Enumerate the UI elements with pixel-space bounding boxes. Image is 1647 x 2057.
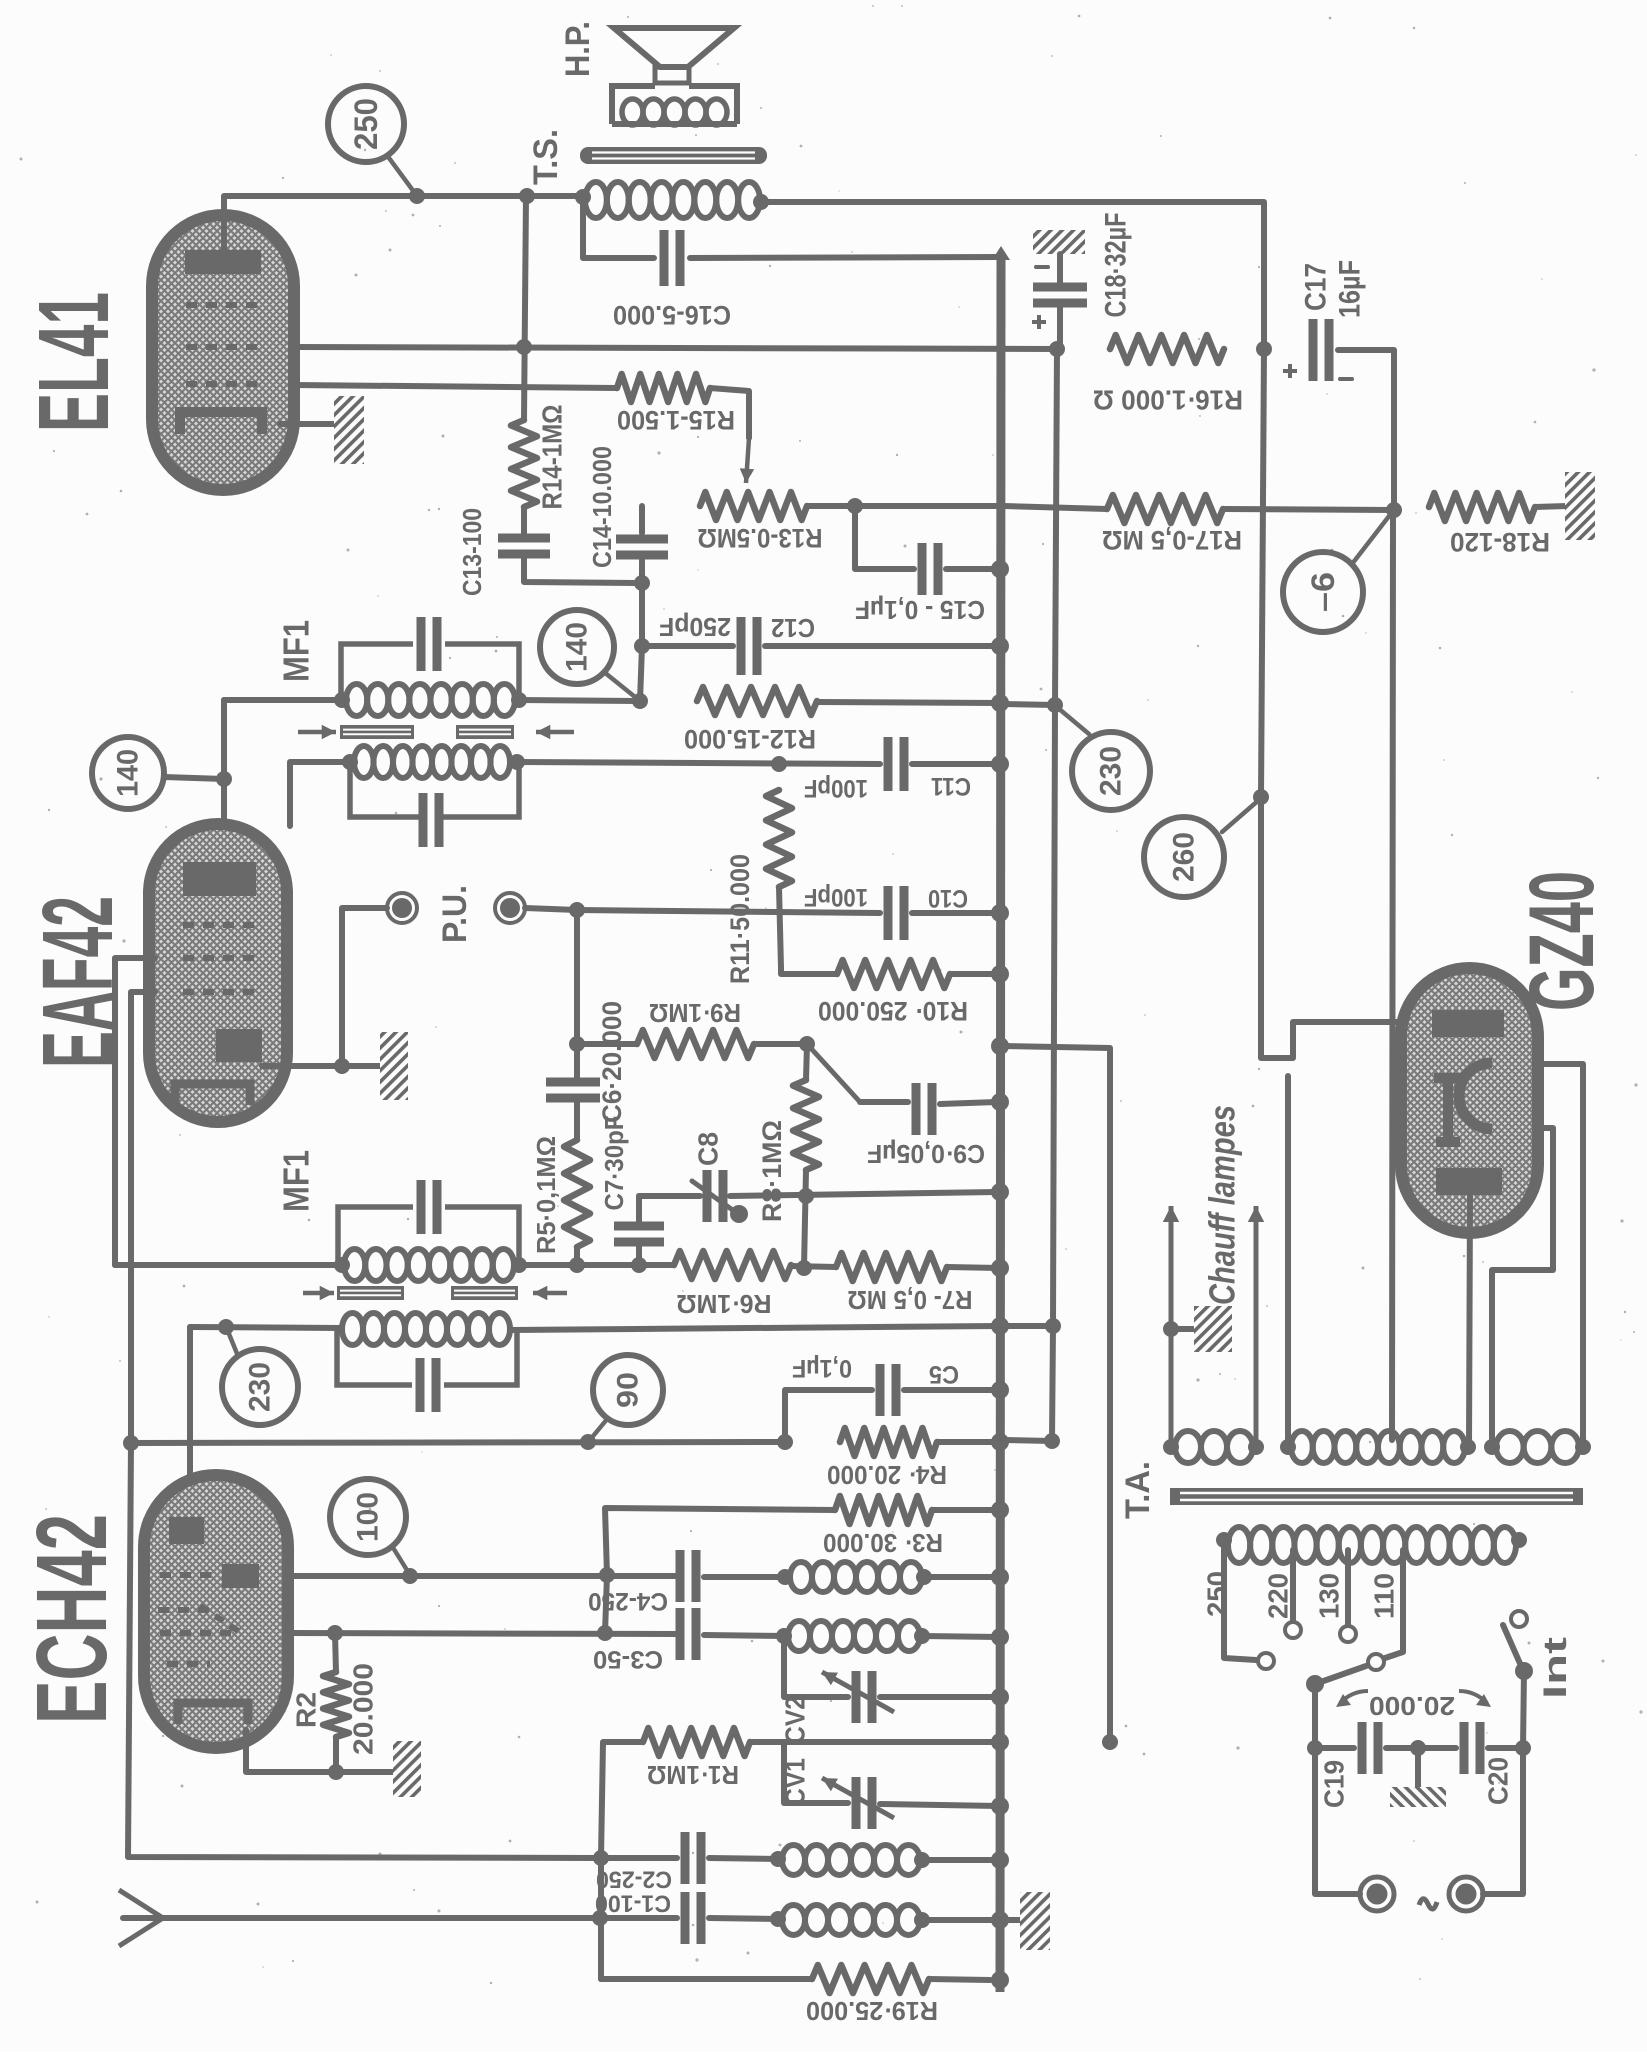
junction dot 140 node: [632, 693, 648, 709]
MF1-lower tuning arrow right: [533, 1291, 567, 1296]
svg-text:CV2: CV2: [780, 1696, 811, 1744]
dot primary right: [1511, 1532, 1527, 1548]
wire C16 to main rail: [690, 257, 998, 258]
wire Int to mains plug right: [1483, 1748, 1523, 1894]
wire R6 to R7: [791, 1266, 836, 1267]
resistor R11-50.000 vertical: [766, 790, 792, 887]
resistor R6-1M: [674, 1251, 791, 1279]
EL41 plate lead wire: [221, 215, 227, 252]
wire x131 bus down to C2 row: [128, 1443, 597, 1858]
wire P.U.2 to C10 row: [525, 908, 577, 910]
wire R11 bottom to R10: [779, 887, 837, 974]
svg-text:C2-250: C2-250: [596, 1866, 672, 1893]
junction dot x131/90 row: [123, 1435, 139, 1451]
wire T.A. feed from rail: [1001, 1046, 1110, 1742]
resistor R3-30.000: [835, 1496, 932, 1524]
wire 260 bus to GZ40 plate: [1261, 797, 1430, 1058]
dot HT winding left: [1484, 1439, 1500, 1455]
wire MF1-lower primary to rail: [510, 1326, 999, 1330]
svg-text:130: 130: [1314, 1573, 1345, 1619]
rail top end marker: [992, 246, 1010, 260]
svg-text:C11: C11: [931, 772, 971, 800]
wire primary right to C17 corner (x1264 drop): [761, 202, 1264, 349]
wire x577 column down: [574, 910, 580, 1078]
transformer MF1-upper secondary coil: [346, 684, 367, 716]
junction dot x1053 stub: [1045, 1318, 1061, 1334]
junction dot L1 left: [777, 1569, 793, 1585]
node 140 circle: [540, 610, 614, 684]
wire MF1 primary to EAF42 plate: [290, 762, 350, 826]
svg-text:R5·0,1MΩ: R5·0,1MΩ: [531, 1136, 561, 1254]
capacitor C18-32uF bars: [1033, 283, 1087, 292]
svg-text:–6: –6: [1305, 572, 1341, 612]
junction dot L2 right: [914, 1628, 930, 1644]
svg-text:16µF: 16µF: [1334, 260, 1367, 318]
wire 140 node to MF1 secondary: [224, 697, 342, 703]
junction dot L4 right: [914, 1912, 930, 1928]
wire C1 row cont: [709, 1918, 782, 1919]
svg-text:ECH42: ECH42: [16, 1514, 128, 1724]
wire R3 column: [605, 1575, 607, 1633]
dot 5V winding right: [1460, 1439, 1476, 1455]
dot HT winding right: [1575, 1439, 1591, 1455]
terminal P.U. 2: [495, 893, 525, 923]
resistor R12-15.000: [697, 687, 817, 715]
switch Int terminal: [1511, 1611, 1527, 1627]
wire 140 left to EAF42 grid node: [164, 777, 224, 779]
wire C14 bottom to node dot: [639, 560, 645, 583]
wire node down to C12 row: [639, 583, 645, 646]
ground C18: [1033, 230, 1085, 254]
wire -6 centre-tap bus: [1392, 510, 1393, 1440]
wire x601 column: [598, 1858, 604, 1979]
svg-text:R18-120: R18-120: [1450, 527, 1550, 557]
junction dot cathode/ground/PU: [334, 1058, 350, 1074]
wire ECH42 triode anode row (y1576): [288, 1573, 676, 1579]
svg-text:R14-1MΩ: R14-1MΩ: [537, 405, 568, 510]
wire GZ40 filament right lower: [1492, 1128, 1553, 1447]
speaker H.P. horn: [614, 28, 734, 67]
node dot top wire B: [519, 188, 535, 204]
wire R2 leads: [335, 1633, 336, 1672]
capacitor C13-100 bars: [498, 534, 550, 543]
svg-text:C19: C19: [1319, 1760, 1350, 1808]
ECH42 grid dash row 3: [160, 1630, 235, 1636]
wire EL41 grid row (y385): [294, 385, 617, 388]
junction dot L1 right: [916, 1569, 932, 1585]
wire selector to mains plug left: [1315, 1748, 1360, 1894]
wire Int to C20 row: [1523, 1671, 1524, 1748]
svg-text:C14-10.000: C14-10.000: [587, 446, 617, 568]
wire R17 to junction: [1223, 509, 1394, 510]
ECH42 top electrode square: [169, 1517, 204, 1544]
svg-text:P.U.: P.U.: [436, 885, 474, 943]
junction dot 230 stub: [1047, 697, 1063, 713]
junction dot 260 node: [1253, 789, 1269, 805]
dot coil right end: [753, 194, 769, 210]
primary tap 110 lead: [1385, 1550, 1403, 1658]
resistor R16-1.000: [1110, 335, 1224, 363]
svg-text:C1-100: C1-100: [595, 1890, 671, 1917]
svg-text:110: 110: [1369, 1573, 1400, 1619]
junction dot C2 node: [593, 1850, 609, 1866]
wire C4 to coil L1: [704, 1574, 790, 1580]
capacitor C9-0.05uF bars: [912, 1083, 921, 1135]
capacitor C2-250 bars: [681, 1832, 690, 1884]
dot heater winding right: [1248, 1439, 1264, 1455]
wire x115 to MF1-lower secondary: [115, 1262, 342, 1268]
resistor R19-25.000: [812, 1965, 929, 1993]
svg-text:R17-0,5 MΩ: R17-0,5 MΩ: [1102, 525, 1242, 555]
svg-text:220: 220: [1263, 1573, 1294, 1619]
transformer MF1-upper bottom cap bars: [419, 793, 428, 847]
svg-text:C10: C10: [928, 884, 968, 912]
primary tap 220 lead: [1290, 1550, 1296, 1620]
junction dot C4/R3 node: [599, 1567, 615, 1583]
svg-text:CV1: CV1: [780, 1758, 811, 1806]
wire R7 to rail: [947, 1267, 999, 1268]
wire node down to 140 node: [640, 646, 642, 701]
svg-text:C16-5.000: C16-5.000: [613, 300, 731, 330]
heater winding 6V coil: [1175, 1431, 1201, 1463]
wire ECH42 grid row y1327: [190, 1327, 340, 1328]
svg-text:C9·0,05µF: C9·0,05µF: [867, 1139, 985, 1169]
wire MF1-lower secondary to R6 row: [519, 1262, 674, 1268]
node 90 circle: [593, 1355, 663, 1425]
wire MF1 secondary to 140 junction: [519, 700, 640, 701]
node 260 circle: [1144, 817, 1224, 897]
trimmer CV1 box: [784, 1742, 848, 1803]
wire P.U.1 to ground node: [342, 908, 387, 1066]
terminal 110 tap: [1368, 1654, 1384, 1670]
GZ40 cathode T electrode: [1434, 1078, 1462, 1142]
terminal P.U. 1: [387, 893, 417, 923]
wire EAF42 pin to x131 bus: [131, 992, 155, 1443]
ground EL41 cathode: [334, 396, 364, 464]
wire heater ground stub: [1171, 1326, 1196, 1332]
node 100 leader: [392, 1546, 410, 1575]
dot MF1-lower secondary right: [511, 1257, 527, 1273]
node 140 leader: [604, 672, 640, 701]
svg-text:R2: R2: [291, 1692, 322, 1728]
MF1-lower core bar left: [337, 1286, 404, 1300]
wire C17 to corner down: [1338, 350, 1394, 510]
svg-text:T.S.: T.S.: [527, 129, 565, 185]
wire cathode node to ground: [342, 1063, 382, 1069]
svg-text:R6·1MΩ: R6·1MΩ: [677, 1289, 772, 1319]
svg-text:Int: Int: [1537, 1636, 1573, 1699]
resistor R14-1M vertical: [511, 420, 537, 507]
wire EAF42 pin to x115 bus: [115, 958, 155, 1265]
C17 polarity plus: [1283, 364, 1297, 378]
resistor R10-250.000: [837, 960, 950, 988]
wire -6 line right of rail: [1004, 506, 1107, 509]
svg-text:250: 250: [348, 98, 384, 150]
trimmer CV2 box: [784, 1636, 848, 1697]
wire x1264 bus down to 260: [1261, 349, 1264, 797]
junction dot EAF42 grid node: [216, 771, 232, 787]
wire GZ40 cathode down to 5V winding: [1469, 1195, 1470, 1447]
svg-text:C3-50: C3-50: [593, 1645, 663, 1673]
antenna coil L3: [782, 1845, 805, 1875]
junction dot 90 leader node: [580, 1434, 596, 1450]
capacitor C1-100 bars: [681, 1892, 690, 1944]
wire C15 to rail: [946, 566, 1000, 572]
node 90 leader: [589, 1418, 608, 1441]
ground main rail bottom: [1020, 1892, 1050, 1950]
junction dot R9/R8/C9: [799, 1036, 815, 1052]
junction dot screen/x524: [516, 339, 532, 355]
svg-text:140: 140: [112, 749, 145, 797]
speaker H.P. body: [612, 83, 737, 124]
capacitor C16 bars: [660, 230, 669, 286]
terminal 130 tap: [1340, 1626, 1356, 1642]
wire C9 to rail: [940, 1102, 997, 1104]
junction dot P.U. node: [569, 902, 585, 918]
resistor R5-0.1M vertical: [564, 1140, 590, 1247]
svg-text:C20: C20: [1483, 1757, 1514, 1805]
wire diagonal to C9: [807, 1044, 860, 1102]
resistor R1-1M: [643, 1728, 750, 1756]
MF1-upper core bar right: [456, 725, 514, 739]
ground R18: [1565, 472, 1595, 540]
wire R13 left lead down to C14: [639, 506, 645, 533]
MF1-lower tuning arrow left: [303, 1291, 334, 1296]
junction dot R16/C17: [1256, 341, 1272, 357]
junction dot Int bottom: [1515, 1740, 1531, 1756]
wire R1 row to rail (T.A. row): [784, 1739, 999, 1745]
ECH42 grid dash row 2: [158, 1607, 218, 1613]
node 230-2 circle: [222, 1349, 298, 1425]
svg-text:R15-1.500: R15-1.500: [617, 405, 735, 435]
oscillator coil L1: [790, 1562, 812, 1592]
speaker voice coil: [622, 99, 643, 125]
resistor R4-20.000: [840, 1428, 937, 1456]
dot primary left: [1216, 1532, 1232, 1548]
wire R5 to MF1-2 row: [574, 1247, 580, 1265]
trimmer CV1 arrow: [822, 1778, 894, 1818]
junction dot R8/C8 row: [798, 1188, 814, 1204]
C17 polarity minus: [1340, 377, 1352, 381]
junction dot L4 left: [770, 1911, 786, 1927]
node 230-2 leader: [227, 1329, 238, 1356]
resistor R8-1M vertical: [793, 1080, 819, 1170]
ground EAF42 cathode: [380, 1032, 408, 1100]
wire EAF42 cathode to ground node: [262, 1063, 342, 1069]
junction dot R5 bottom: [569, 1257, 585, 1273]
tube EAF42 envelope: [149, 824, 287, 1122]
svg-text:Chauff lampes: Chauff lampes: [1202, 1105, 1243, 1305]
transformer MF1-upper box top edge: [341, 644, 519, 700]
tube ECH42 envelope: [144, 1475, 288, 1748]
rectifier 5V winding coil: [1291, 1431, 1313, 1463]
EL41 cathode electrode: [180, 412, 262, 434]
svg-text:R3· 30.000: R3· 30.000: [823, 1528, 943, 1558]
capacitor C5 branch: [785, 1390, 872, 1442]
junction dot 100 node: [402, 1568, 418, 1584]
transformer T.A. core bar: [1170, 1488, 1583, 1505]
junction dot R13/C15: [847, 498, 863, 514]
heater riser left with arrow: [1169, 1206, 1174, 1447]
dot heater winding left: [1163, 1439, 1179, 1455]
capacitor C12 250pF bars: [737, 617, 746, 675]
wire antenna row: [123, 1915, 677, 1921]
wire C9 row: [860, 1099, 908, 1105]
terminal 250 tap: [1258, 1653, 1274, 1669]
node 260 leader: [1222, 799, 1260, 832]
node -6 leader: [1352, 511, 1393, 564]
ECH42 cathode bottom bar: [178, 1703, 248, 1724]
transformer MF1-lower secondary coil: [344, 1249, 365, 1281]
wire ECH42 osc grid row (y1633): [288, 1633, 676, 1634]
junction dot selector bottom: [1307, 1740, 1323, 1756]
wire R8 top lead: [806, 1044, 807, 1080]
capacitor C20 bars: [1460, 1722, 1469, 1774]
wire R10 to rail: [950, 971, 1000, 977]
wire C2 row: [601, 1855, 677, 1861]
wire GZ40 filament right upper: [1538, 1064, 1583, 1447]
capacitor C16 left branch: [583, 197, 654, 258]
svg-text:250: 250: [1202, 1571, 1233, 1617]
svg-text:0,1µF: 0,1µF: [792, 1354, 852, 1382]
wire C8 to R8 bottom and rail: [730, 1192, 996, 1196]
dot MF1-upper secondary right: [511, 692, 527, 708]
svg-text:MF1: MF1: [276, 1150, 317, 1212]
transformer MF1-upper top cap bars: [417, 617, 426, 671]
wire R12 to rail: [817, 702, 998, 703]
HT winding coil: [1496, 1431, 1524, 1463]
trimmer C8 slug line: [692, 1181, 734, 1211]
capacitor C17 16uF bars: [1309, 319, 1318, 381]
main chassis rail (x999): [1000, 253, 1001, 1992]
svg-text:T.A.: T.A.: [1119, 1461, 1157, 1519]
svg-text:C7·30pF: C7·30pF: [599, 1116, 629, 1211]
wire C12 to rail: [765, 643, 998, 649]
wire x524 vertical (screen node down to R14): [524, 196, 526, 420]
ground mains filter: [1390, 1787, 1446, 1807]
wire R3 to rail: [932, 1507, 999, 1513]
svg-text:20.000: 20.000: [348, 1663, 379, 1755]
MF1-lower core bar right: [451, 1286, 518, 1300]
svg-text:C15 - 0,1µF: C15 - 0,1µF: [855, 595, 985, 625]
speaker H.P. neck: [655, 67, 689, 83]
transformer MF1-lower primary coil: [342, 1313, 363, 1345]
wire C5 to rail: [904, 1387, 996, 1393]
dot MF1-upper primary right: [509, 754, 525, 770]
wire ECH42 cathode to R2 bottom and ground: [246, 1730, 393, 1772]
svg-text:R16·1.000 Ω: R16·1.000 Ω: [1093, 385, 1243, 416]
transformer MF1-lower box bottom edge: [337, 1329, 517, 1385]
capacitor C19 bars: [1358, 1722, 1367, 1774]
capacitor C15 branch: [855, 506, 914, 569]
svg-text:GZ40: GZ40: [1511, 871, 1613, 1011]
wire rail stub to x1053 bottom: [1004, 1440, 1052, 1441]
wire rail to 230 stub: [1002, 704, 1055, 705]
svg-text:140: 140: [561, 622, 594, 672]
svg-text:20.000: 20.000: [1369, 1691, 1455, 1721]
pot wiper arrow onto R13: [746, 438, 749, 483]
wire filter mid to ground: [1415, 1748, 1421, 1788]
EL41 plate bar electrode: [185, 250, 261, 274]
GZ40 filament arc electrode: [1459, 1063, 1492, 1129]
resistor R17-0.5M: [1107, 495, 1223, 523]
svg-text:C12: C12: [771, 613, 815, 643]
wire R9 leads: [577, 1041, 637, 1047]
svg-text:MF1: MF1: [276, 620, 317, 682]
transformer MF1-lower top cap bars: [417, 1180, 426, 1234]
trimmer CV1 bars: [852, 1777, 861, 1829]
svg-text:R7- 0,5 MΩ: R7- 0,5 MΩ: [848, 1285, 973, 1315]
resistor R2-20.000 vertical: [323, 1672, 349, 1737]
svg-text:260: 260: [1168, 832, 1201, 882]
EAF42 grid dash row 2: [183, 955, 256, 961]
svg-text:90: 90: [612, 1372, 645, 1408]
svg-text:R8·1MΩ: R8·1MΩ: [757, 1120, 787, 1222]
svg-text:C18·32µF: C18·32µF: [1100, 213, 1133, 318]
svg-text:C5: C5: [929, 1360, 959, 1388]
wire L3 to rail: [922, 1857, 991, 1863]
voltage selector wiper arm: [1315, 1666, 1366, 1684]
label AC tilde: [1419, 1899, 1437, 1909]
mains primary winding coil: [1228, 1527, 1250, 1563]
EL41 grid dash row 1: [186, 302, 258, 308]
node 140 circle left: [92, 737, 164, 809]
primary tap 250 lead: [1224, 1545, 1256, 1660]
heater riser right with arrow: [1254, 1206, 1259, 1447]
curved arrow right of 20.000: [1459, 1691, 1487, 1703]
MF1-upper core bar left: [340, 725, 414, 739]
wire L1 to rail: [924, 1574, 999, 1580]
node 250 leader line: [389, 158, 417, 196]
GZ40 bottom bar electrode: [1436, 1168, 1502, 1195]
svg-text:R1·1MΩ: R1·1MΩ: [647, 1760, 739, 1790]
dot MF1-lower secondary left: [334, 1257, 350, 1273]
node 250 circle: [328, 86, 404, 162]
wire C11 to rail: [912, 761, 1000, 767]
junction dot R6/R7/R8: [796, 1260, 812, 1276]
EL41 grid dash row 2: [186, 344, 260, 350]
wire R14 to C13: [521, 507, 527, 534]
resistor R9-1M: [637, 1030, 754, 1058]
transformer MF1-upper box bottom edge: [350, 762, 519, 817]
junction dot C18/R16: [1049, 341, 1065, 357]
ECH42 anode rect electrode: [222, 1564, 259, 1588]
wire x1057 bus down: [1052, 349, 1057, 1441]
resistor R7-0.5M: [836, 1253, 947, 1281]
switch Int pivot dot: [1515, 1662, 1533, 1680]
wire C10 row: [577, 910, 880, 913]
junction dot C7 bottom: [631, 1257, 647, 1273]
svg-text:250pF: 250pF: [659, 612, 731, 642]
antenna coil L4: [782, 1905, 805, 1935]
C18 polarity plus: [1032, 315, 1046, 329]
ground ECH42 cathode: [393, 1741, 421, 1797]
wire L2 to rail: [922, 1636, 999, 1637]
junction dot C5/R4 node: [777, 1434, 793, 1450]
mains plug terminal right: [1449, 1877, 1483, 1911]
wire EL41 plate to top rail (250V line): [224, 196, 583, 252]
MF1-upper tuning arrow left: [298, 730, 336, 735]
trimmer CV2 arrow: [822, 1672, 894, 1712]
svg-text:R9·1MΩ: R9·1MΩ: [649, 998, 741, 1028]
wire R13 right to -6 line: [807, 503, 996, 509]
potentiometer R13-0.5M zigzag: [700, 492, 807, 520]
wire grid node up to MF1 wire: [221, 700, 227, 779]
resistor R15-1.500: [617, 374, 710, 402]
svg-text:230: 230: [244, 1362, 277, 1412]
junction dot C3/R3 node: [597, 1625, 613, 1641]
rail junction dots: [991, 560, 1009, 578]
